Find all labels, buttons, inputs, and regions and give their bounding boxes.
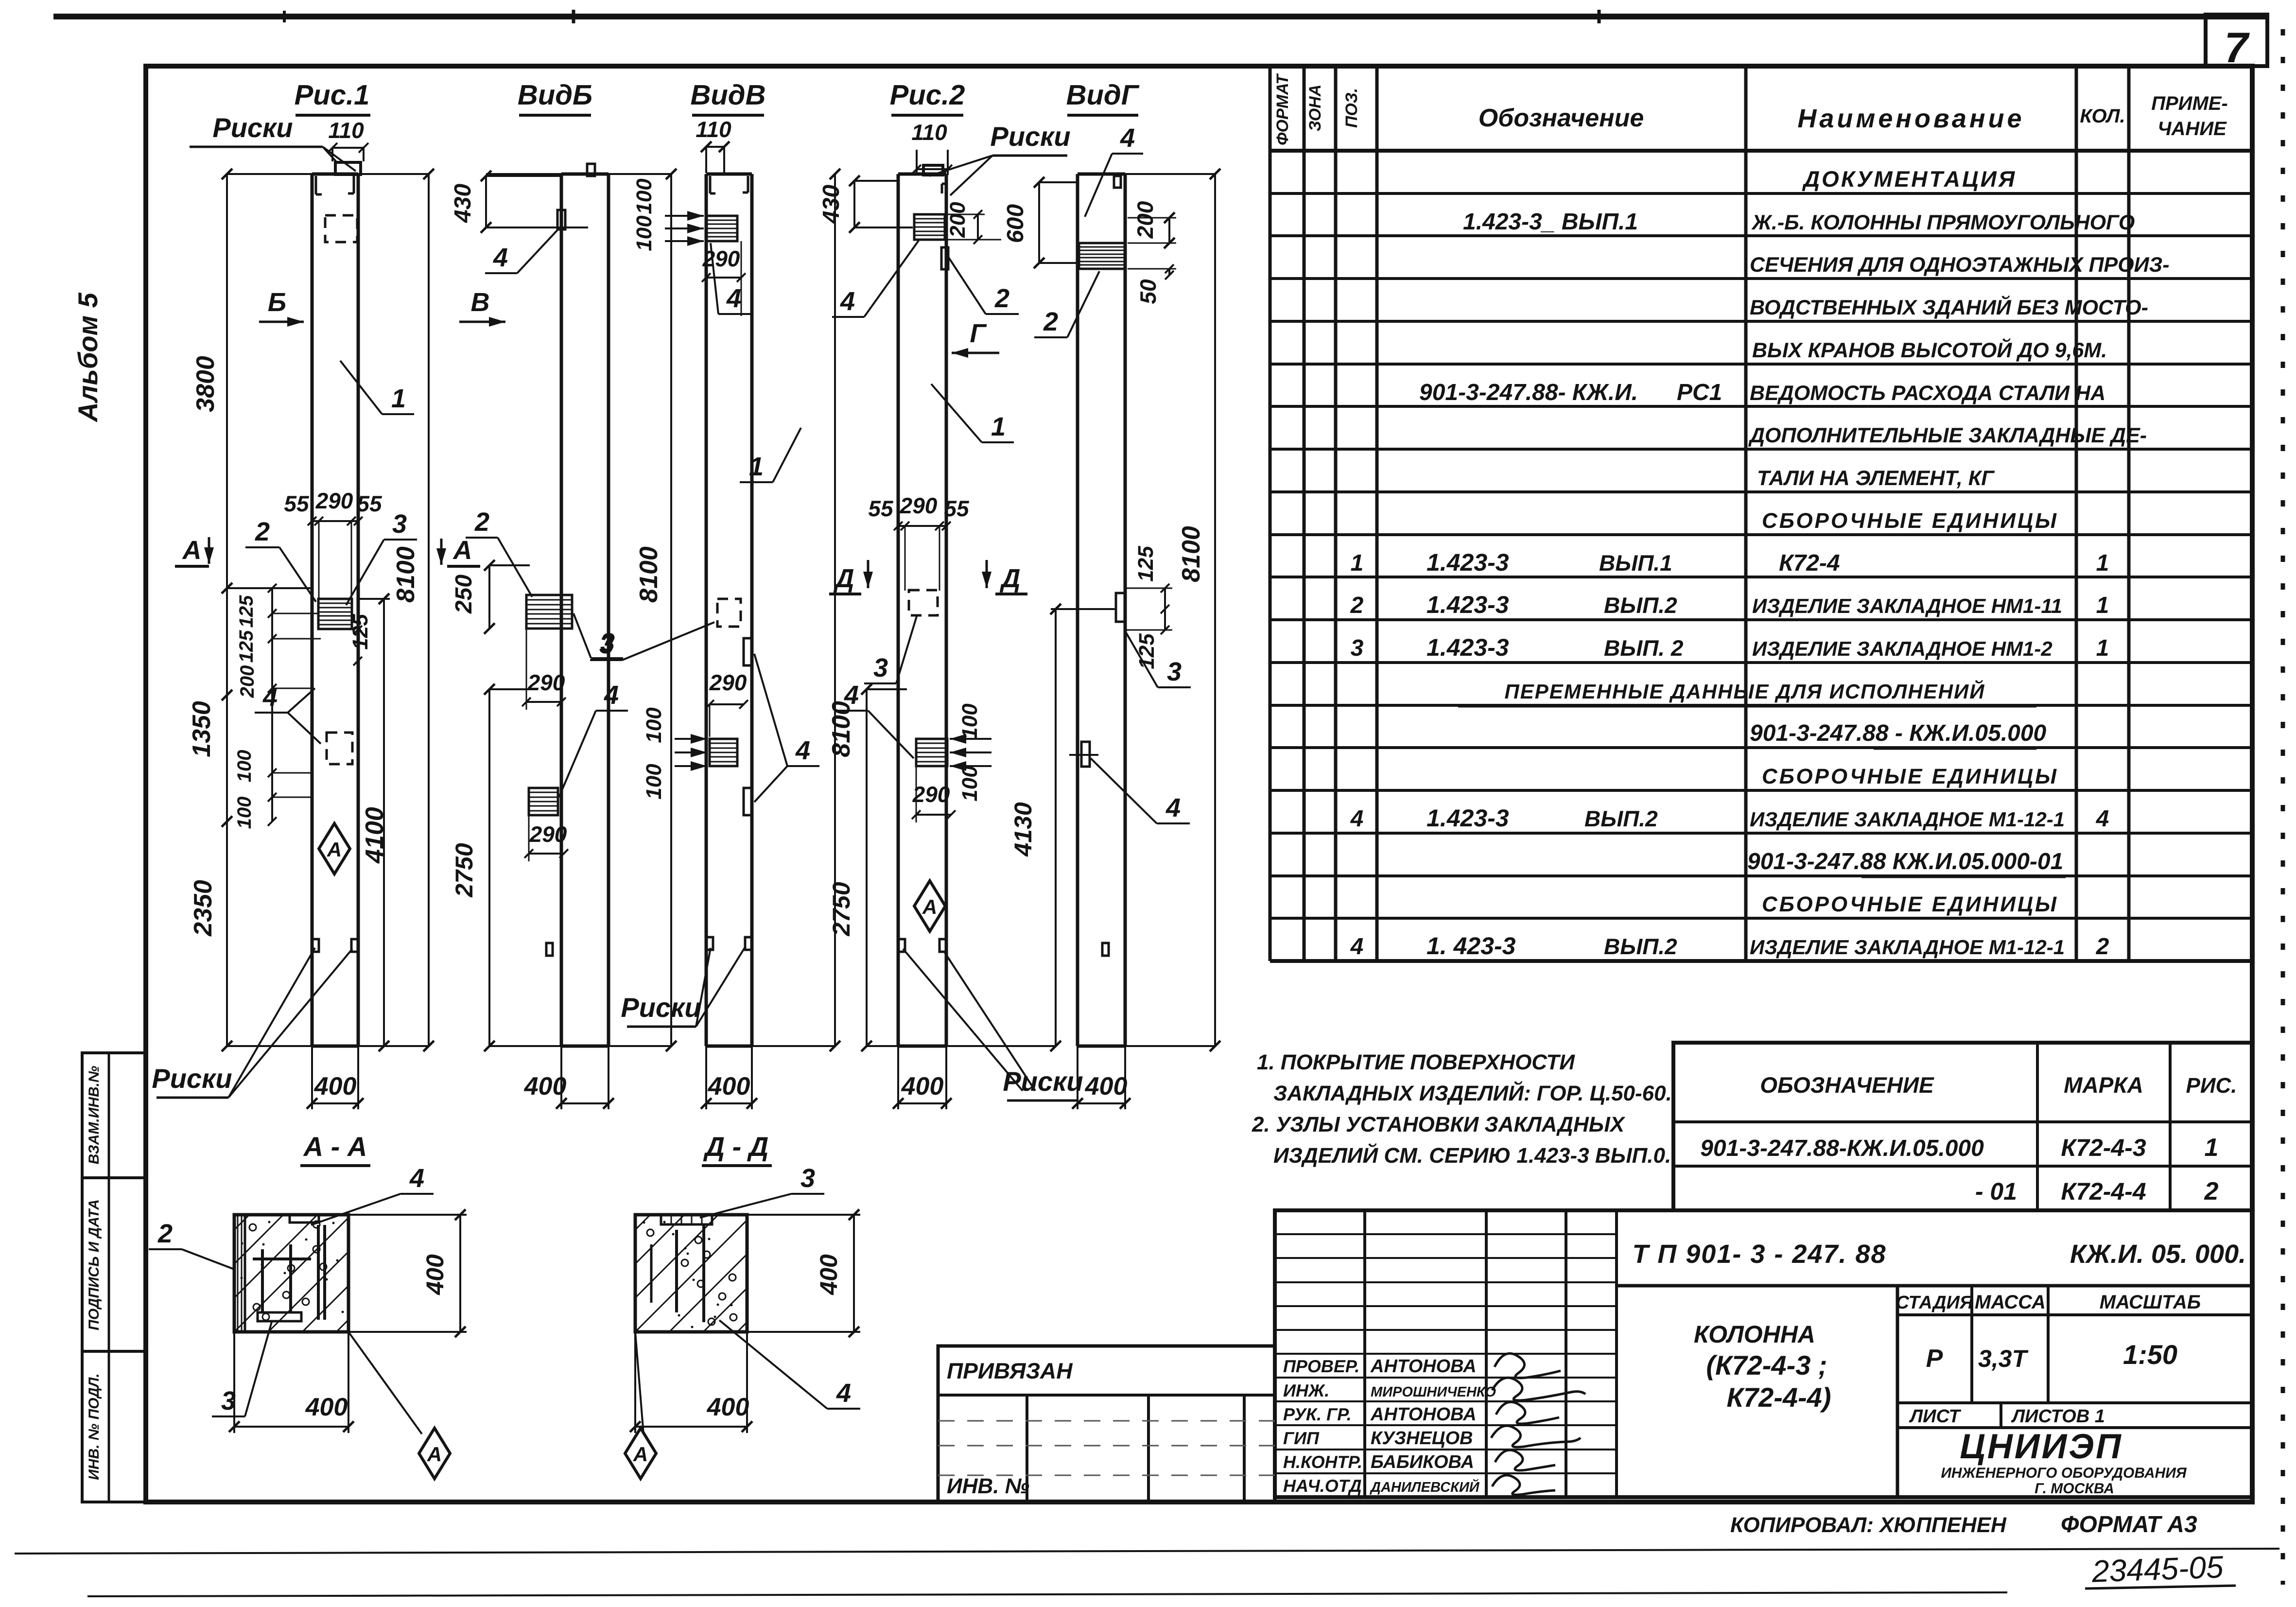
- left margin stamp boxes: [82, 1053, 146, 1178]
- svg-text:ВЫП.2: ВЫП.2: [1584, 806, 1658, 831]
- svg-text:100: 100: [234, 750, 255, 783]
- svg-text:ФОРМАТ А3: ФОРМАТ А3: [2061, 1512, 2197, 1537]
- name cell Колонна: [1896, 1286, 1899, 1497]
- specification table grid: [1269, 66, 1272, 961]
- stage mass scale: [1897, 1313, 2252, 1316]
- embed plate col3 top (pos 4): [706, 216, 737, 241]
- svg-text:1: 1: [2096, 635, 2109, 661]
- svg-text:ВОДСТВЕННЫХ ЗДАНИЙ БЕЗ МОСТО-: ВОДСТВЕННЫХ ЗДАНИЙ БЕЗ МОСТО-: [1750, 295, 2148, 319]
- embed plate (pos 2) col1: [318, 599, 352, 629]
- svg-text:125: 125: [1134, 546, 1158, 582]
- svg-text:ИЗДЕЛИЙ СМ. СЕРИЮ 1.423-3 ВЫП: ИЗДЕЛИЙ СМ. СЕРИЮ 1.423-3 ВЫП.0.: [1273, 1143, 1671, 1168]
- svg-text:1.423-3: 1.423-3: [1426, 549, 1509, 576]
- svg-text:ДОКУМЕНТАЦИЯ: ДОКУМЕНТАЦИЯ: [1802, 166, 2017, 192]
- svg-text:ПРИМЕ-: ПРИМЕ-: [2151, 93, 2228, 114]
- svg-text:ВидБ: ВидБ: [518, 79, 592, 111]
- svg-text:1. 423-3: 1. 423-3: [1426, 932, 1516, 960]
- svg-text:400: 400: [901, 1072, 944, 1100]
- svg-text:Риски: Риски: [152, 1063, 232, 1094]
- dim 50 col5: [1168, 269, 1170, 275]
- section A-A inner plates: [317, 1225, 320, 1320]
- svg-text:ДОПОЛНИТЕЛЬНЫЕ ЗАКЛАДНЫЕ ДЕ-: ДОПОЛНИТЕЛЬНЫЕ ЗАКЛАДНЫЕ ДЕ-: [1748, 424, 2147, 447]
- svg-text:50: 50: [1135, 279, 1161, 304]
- svg-text:400: 400: [305, 1393, 348, 1421]
- svg-text:Риски: Риски: [990, 121, 1070, 152]
- svg-text:К72-4: К72-4: [1779, 550, 1840, 576]
- svg-text:1. ПОКРЫТИЕ ПОВЕРХНОСТИ: 1. ПОКРЫТИЕ ПОВЕРХНОСТИ: [1257, 1050, 1575, 1074]
- dim 430 col4: [853, 181, 855, 227]
- svg-text:200: 200: [237, 665, 258, 699]
- svg-text:РС1: РС1: [1677, 380, 1722, 405]
- svg-text:ЦНИИЭП: ЦНИИЭП: [1960, 1427, 2123, 1466]
- svg-text:2350: 2350: [189, 880, 217, 937]
- svg-text:АНТОНОВА: АНТОНОВА: [1370, 1356, 1477, 1377]
- page number box 7: [2206, 15, 2267, 66]
- svg-text:АНТОНОВА: АНТОНОВА: [1370, 1404, 1477, 1425]
- svg-text:2: 2: [474, 507, 489, 537]
- dim 250 col2: [488, 565, 490, 629]
- svg-text:4: 4: [836, 1379, 851, 1408]
- section A-A left embed strip: [234, 1215, 245, 1332]
- riska marks near bottom: [706, 937, 713, 950]
- dashed embed outline top col1: [325, 215, 357, 242]
- signatures squiggles: [1495, 1353, 1561, 1378]
- svg-text:110: 110: [696, 117, 731, 142]
- svg-text:1.423-3: 1.423-3: [1426, 634, 1509, 661]
- svg-text:ИНВ. № ПОДЛ.: ИНВ. № ПОДЛ.: [86, 1373, 102, 1480]
- embed plate col3 mid: [710, 739, 737, 766]
- embed plate col4 mid: [916, 739, 947, 766]
- svg-text:55: 55: [357, 491, 383, 516]
- mark table: [1673, 1043, 2252, 1210]
- svg-text:3: 3: [1167, 657, 1182, 686]
- svg-text:901-3-247.88 - КЖ.И.05.000: 901-3-247.88 - КЖ.И.05.000: [1750, 720, 2047, 746]
- top and bottom extension connector lines: [227, 173, 312, 175]
- small mark col5 low: [1102, 943, 1109, 956]
- svg-text:ВЕДОМОСТЬ РАСХОДА СТАЛИ НА: ВЕДОМОСТЬ РАСХОДА СТАЛИ НА: [1750, 382, 2105, 405]
- svg-text:3: 3: [392, 509, 407, 539]
- svg-text:А: А: [182, 536, 202, 565]
- svg-text:КЖ.И. 05. 000.: КЖ.И. 05. 000.: [2070, 1240, 2246, 1269]
- svg-text:А: А: [327, 838, 342, 861]
- perforation dotted edge: [2281, 29, 2285, 1585]
- small embed col5 left: [1081, 742, 1090, 767]
- dim 600 col5: [1038, 182, 1040, 263]
- svg-text:Г. МОСКВА: Г. МОСКВА: [2035, 1481, 2114, 1497]
- svg-text:Д - Д: Д - Д: [703, 1131, 769, 1162]
- embed plate col4 top (pos 4): [914, 214, 945, 240]
- svg-text:ЗОНА: ЗОНА: [1306, 85, 1324, 132]
- svg-text:Д: Д: [834, 564, 854, 593]
- svg-text:901-3-247.88-КЖ.И.05.000: 901-3-247.88-КЖ.И.05.000: [1700, 1135, 1984, 1161]
- svg-text:2. УЗЛЫ УСТАНОВКИ ЗАКЛАДНЫХ: 2. УЗЛЫ УСТАНОВКИ ЗАКЛАДНЫХ: [1252, 1113, 1626, 1136]
- svg-text:ВЫХ КРАНОВ ВЫСОТОЙ ДО 9,6М.: ВЫХ КРАНОВ ВЫСОТОЙ ДО 9,6М.: [1752, 338, 2107, 362]
- riska marks near bottom: [312, 939, 319, 952]
- svg-text:- 01: - 01: [1975, 1178, 2017, 1205]
- svg-text:ВЫП. 2: ВЫП. 2: [1604, 635, 1684, 661]
- corner marks col3: [709, 176, 712, 193]
- svg-text:400: 400: [708, 1072, 750, 1100]
- svg-text:4: 4: [1120, 123, 1135, 153]
- embed plate col2 lower (pos 4): [529, 788, 558, 815]
- svg-text:55: 55: [944, 496, 970, 521]
- svg-text:ИЗДЕЛИЕ ЗАКЛАДНОЕ М1-12-1: ИЗДЕЛИЕ ЗАКЛАДНОЕ М1-12-1: [1750, 808, 2065, 831]
- svg-text:ВЫП.2: ВЫП.2: [1604, 593, 1677, 618]
- svg-text:ФОРМАТ: ФОРМАТ: [1273, 73, 1292, 145]
- svg-text:СЕЧЕНИЯ ДЛЯ ОДНОЭТАЖНЫХ ПРОИЗ-: СЕЧЕНИЯ ДЛЯ ОДНОЭТАЖНЫХ ПРОИЗ-: [1750, 253, 2170, 277]
- svg-text:КУЗНЕЦОВ: КУЗНЕЦОВ: [1371, 1428, 1473, 1449]
- svg-text:4: 4: [409, 1164, 424, 1193]
- column outline Рис.1: [311, 174, 314, 1046]
- svg-text:400: 400: [815, 1254, 842, 1295]
- svg-text:Обозначение: Обозначение: [1478, 104, 1644, 132]
- svg-text:4: 4: [795, 736, 810, 765]
- svg-text:1: 1: [2096, 593, 2109, 618]
- svg-text:4: 4: [726, 284, 741, 313]
- svg-text:Рис.2: Рис.2: [890, 79, 965, 111]
- svg-text:БАБИКОВА: БАБИКОВА: [1371, 1452, 1474, 1472]
- embed plate col5 (pos 2): [1079, 243, 1125, 269]
- svg-text:200: 200: [946, 202, 970, 238]
- svg-text:4: 4: [844, 681, 859, 710]
- svg-text:МАРКА: МАРКА: [2064, 1072, 2143, 1098]
- svg-text:4: 4: [262, 682, 278, 712]
- svg-text:3: 3: [1351, 635, 1364, 661]
- svg-text:РИС.: РИС.: [2186, 1074, 2237, 1098]
- svg-text:290: 290: [527, 670, 565, 695]
- svg-text:Г: Г: [970, 319, 987, 348]
- svg-text:100: 100: [632, 215, 656, 251]
- svg-text:4: 4: [1350, 806, 1364, 832]
- dim 8100 col3: [834, 174, 836, 1046]
- section Д-Д dim 400 right: [747, 1214, 860, 1216]
- svg-text:2: 2: [1043, 307, 1058, 336]
- svg-text:СБОРОЧНЫЕ ЕДИНИЦЫ: СБОРОЧНЫЕ ЕДИНИЦЫ: [1762, 765, 2058, 788]
- bottom 400 dimension: [705, 1046, 707, 1109]
- bottom 400 dimension: [1077, 1046, 1078, 1109]
- svg-text:8100: 8100: [635, 546, 663, 603]
- svg-text:290: 290: [315, 488, 353, 513]
- bottom 400 dimension: [311, 1046, 313, 1109]
- section Д-Д inner bars: [675, 1230, 678, 1312]
- riska notch top col4: [923, 165, 943, 175]
- bottom 400 dimension: [560, 1046, 562, 1109]
- svg-text:23445-05: 23445-05: [2091, 1549, 2224, 1589]
- embed plate col2 upper (pos 2): [526, 595, 572, 629]
- dim 430 col2: [485, 176, 487, 227]
- sub dim chain col1: 125/125/200/100/100: [271, 588, 273, 821]
- svg-text:КОПИРОВАЛ: ХЮППЕНЕН: КОПИРОВАЛ: ХЮППЕНЕН: [1730, 1513, 2007, 1537]
- svg-text:290: 290: [900, 493, 938, 518]
- column outline Рис.2: [897, 174, 900, 1046]
- section A-A dim 400 bottom: [233, 1332, 235, 1433]
- right dim 4100 col1: [383, 599, 385, 1046]
- svg-text:110: 110: [911, 120, 947, 145]
- svg-text:ПОДПИСЬ И ДАТА: ПОДПИСЬ И ДАТА: [86, 1199, 102, 1330]
- svg-text:1: 1: [1351, 550, 1364, 576]
- svg-text:ПОЗ.: ПОЗ.: [1342, 88, 1361, 128]
- svg-text:К72-4-4): К72-4-4): [1727, 1382, 1831, 1413]
- signature table: [1363, 1210, 1366, 1497]
- svg-text:ТАЛИ НА ЭЛЕМЕНТ, КГ: ТАЛИ НА ЭЛЕМЕНТ, КГ: [1757, 467, 1995, 490]
- svg-text:К72-4-3: К72-4-3: [2061, 1134, 2146, 1161]
- svg-text:СБОРОЧНЫЕ ЕДИНИЦЫ: СБОРОЧНЫЕ ЕДИНИЦЫ: [1762, 892, 2058, 916]
- small mark col2 low: [546, 943, 553, 956]
- svg-text:Т П 901- 3 - 247. 88: Т П 901- 3 - 247. 88: [1632, 1240, 1886, 1269]
- svg-text:1.423-3: 1.423-3: [1426, 591, 1509, 618]
- svg-text:МАСШТАБ: МАСШТАБ: [2100, 1292, 2201, 1313]
- dashed embed col3: [717, 599, 741, 627]
- svg-text:2: 2: [1350, 593, 1364, 618]
- section Д-Д dim 400 bottom: [634, 1332, 636, 1433]
- svg-text:110: 110: [328, 118, 364, 143]
- svg-text:100: 100: [642, 707, 666, 743]
- svg-text:3800: 3800: [191, 356, 220, 412]
- dashed embed col4: [909, 590, 938, 615]
- svg-text:ВидГ: ВидГ: [1066, 79, 1140, 111]
- svg-text:100: 100: [958, 703, 982, 739]
- svg-text:2: 2: [2096, 934, 2109, 960]
- svg-text:1:50: 1:50: [2123, 1339, 2177, 1370]
- svg-text:ПЕРЕМЕННЫЕ ДАННЫЕ ДЛЯ ИСПОЛН: ПЕРЕМЕННЫЕ ДАННЫЕ ДЛЯ ИСПОЛНЕНИЙ: [1505, 680, 1985, 703]
- svg-text:Б: Б: [268, 288, 286, 317]
- svg-text:2: 2: [255, 517, 270, 546]
- svg-text:НАЧ.ОТД: НАЧ.ОТД: [1283, 1476, 1362, 1496]
- svg-text:100: 100: [958, 766, 982, 802]
- title block outer: [1275, 1210, 2252, 1497]
- svg-text:290: 290: [529, 821, 567, 847]
- svg-text:ЛИСТ: ЛИСТ: [1909, 1406, 1961, 1427]
- svg-text:Р: Р: [1926, 1345, 1943, 1373]
- svg-text:ПРИВЯЗАН: ПРИВЯЗАН: [947, 1358, 1073, 1383]
- svg-text:3: 3: [800, 1164, 815, 1193]
- svg-text:430: 430: [818, 185, 844, 224]
- svg-text:901-3-247.88- КЖ.И.: 901-3-247.88- КЖ.И.: [1419, 380, 1638, 405]
- svg-text:100: 100: [632, 178, 656, 214]
- top mark col5: [1114, 176, 1121, 188]
- svg-text:А: А: [427, 1443, 442, 1466]
- svg-text:55: 55: [284, 491, 310, 516]
- right dim 8100 col1: [428, 174, 430, 1046]
- svg-text:125: 125: [348, 614, 372, 650]
- svg-text:290: 290: [702, 246, 740, 271]
- svg-text:ЗАКЛАДНЫХ ИЗДЕЛИЙ: ГОР. Ц.50-: ЗАКЛАДНЫХ ИЗДЕЛИЙ: ГОР. Ц.50-60.: [1273, 1081, 1672, 1105]
- dim 8100 col5: [1214, 174, 1216, 1046]
- diamond mark A col1: [319, 823, 350, 874]
- svg-text:К72-4-4: К72-4-4: [2061, 1178, 2146, 1205]
- svg-text:(К72-4-3 ;: (К72-4-3 ;: [1706, 1350, 1827, 1380]
- svg-text:400: 400: [707, 1393, 749, 1421]
- column outline Вид Г: [1076, 174, 1079, 1046]
- svg-text:4: 4: [604, 681, 619, 710]
- svg-text:125: 125: [236, 595, 257, 628]
- privyazan box: [938, 1346, 1275, 1502]
- svg-text:РУК. ГР.: РУК. ГР.: [1283, 1404, 1352, 1424]
- dashed embed mid col1: [327, 733, 352, 764]
- svg-text:Риски: Риски: [621, 992, 701, 1023]
- section Д-Д diamond: [635, 1332, 644, 1434]
- dim 2750 col2: [488, 689, 490, 1046]
- svg-text:ИЗДЕЛИЕ ЗАКЛАДНОЕ НМ1-11: ИЗДЕЛИЕ ЗАКЛАДНОЕ НМ1-11: [1752, 594, 2062, 617]
- svg-text:ВЫП.2: ВЫП.2: [1604, 934, 1677, 959]
- svg-text:ИНЖЕНЕРНОГО ОБОРУДОВАНИЯ: ИНЖЕНЕРНОГО ОБОРУДОВАНИЯ: [1941, 1465, 2187, 1481]
- svg-text:2750: 2750: [451, 843, 478, 897]
- svg-text:ЧАНИЕ: ЧАНИЕ: [2157, 118, 2227, 140]
- svg-text:55: 55: [868, 496, 894, 521]
- svg-text:Наименование: Наименование: [1797, 104, 2024, 133]
- svg-text:1.423-3: 1.423-3: [1426, 804, 1509, 832]
- embed small col5 right (pos 3): [1116, 593, 1125, 622]
- svg-text:ГИП: ГИП: [1283, 1428, 1320, 1448]
- svg-text:2: 2: [2204, 1177, 2219, 1205]
- svg-text:ИНВ. №: ИНВ. №: [947, 1474, 1029, 1498]
- svg-text:ЛИСТОВ 1: ЛИСТОВ 1: [2011, 1406, 2105, 1427]
- section Д-Д square: [635, 1215, 747, 1332]
- svg-text:290: 290: [709, 670, 747, 695]
- dim 200 col5: [1168, 218, 1170, 243]
- svg-text:4: 4: [2096, 806, 2109, 832]
- svg-text:2750: 2750: [828, 882, 855, 936]
- svg-text:4100: 4100: [361, 807, 389, 864]
- column outline Вид Б: [560, 174, 563, 1046]
- svg-text:1: 1: [991, 412, 1006, 441]
- svg-text:2: 2: [994, 284, 1009, 313]
- small embeds col3 right edge: [744, 638, 752, 665]
- small embed col4 right: [941, 247, 948, 269]
- svg-text:250: 250: [451, 575, 477, 614]
- svg-text:8100: 8100: [392, 546, 420, 603]
- svg-text:ИЗДЕЛИЕ ЗАКЛАДНОЕ НМ1-2: ИЗДЕЛИЕ ЗАКЛАДНОЕ НМ1-2: [1752, 637, 2052, 660]
- svg-text:А - А: А - А: [303, 1131, 367, 1162]
- svg-text:А: А: [922, 895, 937, 918]
- svg-text:1: 1: [2205, 1134, 2219, 1162]
- top mark col2: [587, 164, 595, 176]
- svg-text:ВЫП.1: ВЫП.1: [1599, 550, 1672, 576]
- section A-A dim 400 right: [348, 1214, 467, 1216]
- title row ТП: [1617, 1284, 2252, 1288]
- bottom thin lines: [15, 1549, 2279, 1554]
- svg-text:8100: 8100: [1177, 526, 1205, 582]
- svg-text:ПРОВЕР.: ПРОВЕР.: [1283, 1356, 1359, 1376]
- svg-text:МИРОШНИЧЕНКО: МИРОШНИЧЕНКО: [1371, 1384, 1496, 1400]
- corner marks col1: [315, 176, 317, 194]
- svg-text:ВидВ: ВидВ: [690, 79, 765, 111]
- svg-text:200: 200: [1132, 201, 1158, 239]
- column outline Вид В: [705, 174, 708, 1046]
- svg-text:СБОРОЧНЫЕ ЕДИНИЦЫ: СБОРОЧНЫЕ ЕДИНИЦЫ: [1762, 509, 2058, 533]
- bottom 400 dimension: [897, 1046, 899, 1109]
- svg-text:290: 290: [912, 782, 950, 807]
- svg-text:Н.КОНТР.: Н.КОНТР.: [1283, 1452, 1362, 1472]
- dim 4130 col4: [1055, 609, 1057, 1046]
- svg-text:1350: 1350: [188, 701, 216, 757]
- svg-text:4: 4: [1165, 793, 1181, 822]
- svg-text:3: 3: [873, 653, 888, 682]
- svg-text:ИНЖ.: ИНЖ.: [1283, 1380, 1329, 1400]
- svg-text:901-3-247.88 КЖ.И.05.000-01: 901-3-247.88 КЖ.И.05.000-01: [1747, 849, 2063, 874]
- small embed edge col2 top: [557, 210, 565, 229]
- dim 8100 col2: [670, 174, 672, 1046]
- section A-A square: [234, 1215, 348, 1332]
- svg-text:Д: Д: [1000, 564, 1021, 593]
- svg-text:100: 100: [234, 797, 255, 829]
- svg-text:4: 4: [493, 243, 508, 272]
- svg-text:ОБОЗНАЧЕНИЕ: ОБОЗНАЧЕНИЕ: [1760, 1072, 1934, 1098]
- svg-text:600: 600: [1003, 204, 1028, 243]
- svg-text:Альбом 5: Альбом 5: [72, 292, 103, 422]
- svg-text:1.423-3_ ВЫП.1: 1.423-3_ ВЫП.1: [1463, 209, 1638, 235]
- svg-text:3,3Т: 3,3Т: [1978, 1345, 2029, 1372]
- dim 2750 col4: [866, 689, 868, 1046]
- list row: [1897, 1426, 2252, 1429]
- svg-text:1: 1: [2096, 550, 2109, 576]
- svg-text:125: 125: [236, 630, 257, 663]
- svg-text:Рис.1: Рис.1: [295, 79, 370, 111]
- diamond mark A col4: [914, 881, 945, 931]
- svg-text:400: 400: [314, 1072, 357, 1100]
- svg-text:3: 3: [599, 630, 614, 659]
- svg-text:Риски: Риски: [212, 112, 293, 143]
- svg-text:1: 1: [391, 384, 406, 413]
- svg-text:КОЛОННА: КОЛОННА: [1694, 1321, 1815, 1348]
- svg-text:125: 125: [1135, 633, 1159, 669]
- svg-text:4: 4: [840, 287, 855, 316]
- section A-A diamond: [348, 1332, 422, 1434]
- riska marks near bottom: [898, 939, 905, 952]
- svg-text:400: 400: [421, 1254, 449, 1295]
- svg-text:1: 1: [749, 452, 764, 481]
- svg-text:4: 4: [1350, 934, 1364, 960]
- left dim chain col1: 3800/1350/2350: [226, 174, 228, 1046]
- sheet top edge line: [53, 14, 2267, 19]
- svg-text:СТАДИЯ: СТАДИЯ: [1896, 1293, 1973, 1313]
- svg-text:400: 400: [524, 1072, 567, 1100]
- svg-text:ДАНИЛЕВСКИЙ: ДАНИЛЕВСКИЙ: [1369, 1479, 1480, 1495]
- svg-text:А: А: [452, 536, 472, 565]
- svg-text:400: 400: [1085, 1072, 1128, 1100]
- svg-text:В: В: [471, 288, 490, 317]
- svg-text:2: 2: [157, 1219, 173, 1248]
- svg-text:430: 430: [450, 184, 476, 223]
- svg-text:100: 100: [642, 764, 666, 800]
- svg-text:4130: 4130: [1009, 802, 1037, 856]
- svg-text:А: А: [633, 1443, 648, 1466]
- svg-text:Ж.-Б. КОЛОННЫ ПРЯМОУГОЛЬНОГО: Ж.-Б. КОЛОННЫ ПРЯМОУГОЛЬНОГО: [1751, 211, 2135, 234]
- svg-text:КОЛ.: КОЛ.: [2080, 105, 2125, 127]
- svg-text:ВЗАМ.ИНВ.№: ВЗАМ.ИНВ.№: [86, 1066, 102, 1165]
- svg-text:МАССА: МАССА: [1975, 1292, 2046, 1313]
- svg-text:ИЗДЕЛИЕ ЗАКЛАДНОЕ М1-12-1: ИЗДЕЛИЕ ЗАКЛАДНОЕ М1-12-1: [1750, 936, 2065, 959]
- section Д-Д top embed strip: [661, 1215, 712, 1224]
- riska notch top col1: [335, 162, 361, 175]
- dims 125 125 col5: [1164, 588, 1166, 630]
